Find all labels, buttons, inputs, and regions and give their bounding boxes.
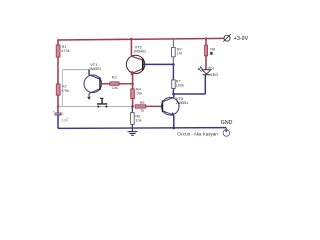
svg-text:10k: 10k <box>135 118 141 122</box>
svg-text:2N5551: 2N5551 <box>176 101 189 105</box>
resistor R5 1k (VT3 base) <box>135 101 146 112</box>
svg-text:1M: 1M <box>177 52 182 56</box>
svg-text:1k: 1k <box>140 108 144 112</box>
node junction VT3 emitter / bottom rail <box>173 127 176 130</box>
wire VT1 collector loop (gray) <box>63 70 90 107</box>
svg-text:470k: 470k <box>61 89 69 93</box>
node junction VT1 base wire / VT2 collector column <box>131 83 134 86</box>
node junction left-rail / sensor line <box>57 105 59 107</box>
resistor R6 10k <box>131 106 142 131</box>
resistor R2 470k <box>56 84 69 95</box>
terminal GND <box>221 120 233 136</box>
wire top +V rail <box>57 38 224 40</box>
resistor R4 10k <box>131 88 143 99</box>
resistor R9 1M leads (dark gray) <box>172 39 174 48</box>
wire VT2 base (navy) <box>143 63 173 65</box>
svg-text:Circuit - Aka Kasyan: Circuit - Aka Kasyan <box>177 132 218 137</box>
svg-text:R5: R5 <box>140 101 145 105</box>
wire sensor line (gray) <box>58 105 133 107</box>
svg-text:470k: 470k <box>61 49 69 53</box>
transistor VT1 2N5551 <box>84 62 102 100</box>
node junction sensor line / R4 / R6 / R5 <box>131 105 134 108</box>
svg-text:2N5551: 2N5551 <box>89 67 102 71</box>
resistor R8 * <box>205 45 216 56</box>
svg-text:GND: GND <box>221 120 233 126</box>
wire C1 to bottom rail (navy) <box>57 115 59 128</box>
transistor VT2 2N5401 <box>126 44 146 75</box>
wire R8/LED anode column (red) <box>205 39 207 46</box>
resistor R7 100k <box>172 64 184 94</box>
push-button touch contact <box>97 98 108 108</box>
svg-text:10k: 10k <box>136 92 142 96</box>
svg-text:100k: 100k <box>176 83 184 87</box>
svg-text:1uF: 1uF <box>61 117 69 122</box>
terminal +3-9V <box>223 34 248 42</box>
svg-text:+3-9V: +3-9V <box>234 36 249 42</box>
resistor R1 470k <box>56 45 70 57</box>
wire R5 to VT3 base <box>146 105 162 107</box>
svg-text:R3: R3 <box>112 76 117 80</box>
wire VT2 emitter to +V rail <box>130 39 132 57</box>
resistor R9 1M <box>172 47 182 56</box>
node junction R7 / VT3 collector / LED wire <box>172 93 175 96</box>
wire VT2 collector column <box>132 73 134 106</box>
wire left rail (red, +V divider column) <box>57 40 59 114</box>
svg-text:LED: LED <box>211 72 219 77</box>
wire bottom ground rail <box>58 127 226 130</box>
ground symbol below R6 <box>128 132 138 136</box>
wire VT1 base <box>101 83 110 85</box>
svg-text:VD1: VD1 <box>208 66 215 70</box>
svg-text:+: + <box>53 110 55 114</box>
svg-text:C1: C1 <box>60 111 64 115</box>
capacitor C1 1uF <box>53 110 69 122</box>
node junction R8 column / top rail <box>205 37 207 39</box>
wire VT3 collector stub <box>173 94 175 98</box>
node junction R9 / R7 / VT2 base <box>172 63 175 66</box>
wire LED cathode to VT3 collector (navy) <box>173 75 205 94</box>
LED VD1 <box>198 66 218 77</box>
resistor R3 10k (VT1 base) <box>110 76 119 90</box>
svg-text:10k: 10k <box>112 86 118 90</box>
svg-text:2N5401: 2N5401 <box>133 49 146 53</box>
wire VT3 emitter to bottom rail <box>173 115 175 128</box>
svg-text:R8: R8 <box>210 47 215 51</box>
transistor VT3 2N5551 <box>162 96 189 116</box>
node junction VT2 emitter / top rail <box>130 38 132 40</box>
